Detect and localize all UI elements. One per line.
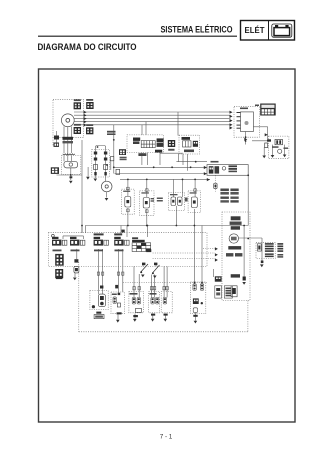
- svg-text:DIAGRAMA DO CIRCUITO: DIAGRAMA DO CIRCUITO: [38, 42, 137, 52]
- svg-text:7 - 1: 7 - 1: [160, 434, 173, 441]
- svg-text:ELÉT: ELÉT: [245, 26, 265, 35]
- svg-text:SISTEMA ELÉTRICO: SISTEMA ELÉTRICO: [161, 25, 233, 35]
